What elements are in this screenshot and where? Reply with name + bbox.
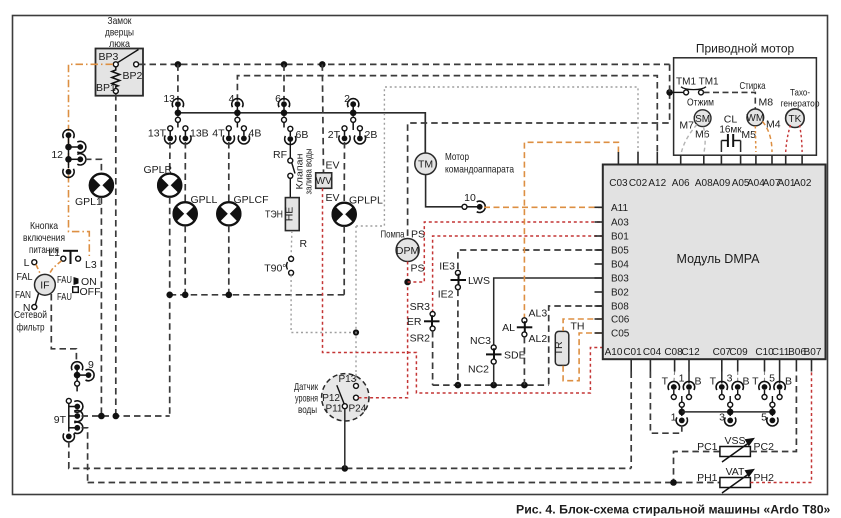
lamp GPLPL <box>332 203 357 226</box>
svg-text:PS: PS <box>411 229 425 241</box>
wire feed node 4 and A12 line <box>237 76 657 153</box>
svg-text:WV: WV <box>316 176 332 187</box>
svg-text:L3: L3 <box>85 259 97 271</box>
svg-text:AL2: AL2 <box>529 333 548 345</box>
wire R grey TEH to T90 <box>290 231 293 257</box>
node 2 <box>348 99 359 130</box>
module top pin stubs <box>618 152 802 165</box>
svg-text:Замок: Замок <box>108 15 132 27</box>
svg-text:фильтр: фильтр <box>17 322 45 334</box>
sensor pin P11 <box>342 404 347 409</box>
motor SM spin <box>694 110 711 127</box>
wire red WV to A10 <box>323 188 603 393</box>
svg-text:GPLCF: GPLCF <box>234 194 269 206</box>
wire 13B to GPLL <box>184 142 186 202</box>
svg-text:B: B <box>743 376 750 388</box>
svg-text:A08: A08 <box>695 178 713 189</box>
wire IF to N <box>35 294 38 306</box>
wire 9T bus to lamps <box>82 415 170 417</box>
svg-text:FAU: FAU <box>57 291 72 303</box>
switch blade BP3 <box>118 50 139 63</box>
svg-text:LWS: LWS <box>468 275 490 287</box>
svg-text:PC1: PC1 <box>697 441 718 453</box>
svg-text:2: 2 <box>344 93 350 105</box>
wire red pump to junction <box>407 262 409 283</box>
svg-text:3: 3 <box>727 373 733 385</box>
wire grey SM M6 to A08 <box>704 127 706 152</box>
wire C07 to T3 <box>721 372 723 384</box>
svg-text:Помпа: Помпа <box>381 229 405 241</box>
connector group3 center <box>725 396 736 426</box>
lamp GPL1 <box>89 174 114 197</box>
wire orange node10 to A11 <box>484 206 603 208</box>
svg-text:A06: A06 <box>672 178 690 189</box>
wire red pump to A03 <box>408 222 603 282</box>
wire GPLR down through bus to 9T bus <box>169 197 171 416</box>
junction on top bus node13 feed <box>175 61 182 68</box>
connector group5 B <box>774 381 785 399</box>
wire TM1 junction to top bus <box>669 64 671 92</box>
wire B05 to IE3 <box>458 250 603 270</box>
wire orange L to IF <box>36 265 42 277</box>
wire grey SM M7 to A06 <box>682 125 698 153</box>
wire C11 to B5 <box>779 372 781 384</box>
junction GPLR lamp bus <box>166 292 173 299</box>
svg-text:1: 1 <box>679 373 685 385</box>
motor TM timer <box>415 153 437 175</box>
power button label <box>23 220 65 256</box>
svg-text:P11: P11 <box>325 404 342 415</box>
svg-text:IE3: IE3 <box>439 261 455 273</box>
wire red B01 to SR3 <box>433 236 603 312</box>
svg-text:A09: A09 <box>713 178 731 189</box>
svg-text:C12: C12 <box>681 347 700 358</box>
svg-text:Модуль DMPA: Модуль DMPA <box>677 252 761 266</box>
wire feed node 6 <box>283 64 285 100</box>
wire orange C03 to AL3 <box>524 142 618 317</box>
wire orange WM M4 to A07 <box>763 122 773 153</box>
svg-text:C06: C06 <box>611 315 630 326</box>
wire P11 to bus1 <box>344 409 346 469</box>
svg-text:IE2: IE2 <box>438 289 454 301</box>
svg-text:9: 9 <box>88 359 94 371</box>
wire red TK to A02 <box>800 125 803 152</box>
svg-text:L1: L1 <box>48 247 60 259</box>
svg-text:командоаппарата: командоаппарата <box>445 164 514 176</box>
thermistor TR <box>553 331 569 365</box>
svg-text:1: 1 <box>671 412 677 424</box>
connector 4T <box>223 126 234 144</box>
node 10 connector <box>462 201 485 212</box>
node 13 <box>172 99 183 128</box>
svg-text:PS: PS <box>411 263 425 275</box>
motor WM wash <box>747 109 764 126</box>
junction BP1 on 9T bus <box>113 413 120 420</box>
svg-text:M5: M5 <box>741 129 756 141</box>
wire IE2 to bus385 <box>457 290 459 386</box>
svg-text:A02: A02 <box>794 178 812 189</box>
terminal L <box>32 260 37 265</box>
svg-text:13: 13 <box>163 93 175 105</box>
svg-text:P13: P13 <box>339 374 357 385</box>
svg-text:P12: P12 <box>322 393 340 404</box>
svg-text:TH: TH <box>571 321 585 333</box>
drive motor box <box>674 58 817 155</box>
junction AL2 bus385 <box>521 382 528 389</box>
junction GPLCF lamp bus <box>226 292 233 299</box>
svg-text:AL: AL <box>502 322 515 334</box>
svg-text:VSS: VSS <box>724 435 745 447</box>
svg-text:C02: C02 <box>629 178 648 189</box>
junction GPLL lamp bus <box>182 292 189 299</box>
svg-text:VAT: VAT <box>726 466 745 478</box>
svg-text:A10: A10 <box>605 347 623 358</box>
svg-text:уровня: уровня <box>295 393 318 405</box>
svg-text:включения: включения <box>23 232 65 244</box>
wire 9T tap3 to bottom bus2 <box>82 428 88 483</box>
svg-text:A03: A03 <box>611 218 629 229</box>
wire grey T90 down to sensor branch <box>291 275 356 332</box>
svg-text:C04: C04 <box>643 347 662 358</box>
wire B08 to bus385 <box>549 306 603 385</box>
svg-text:B03: B03 <box>611 274 629 285</box>
pin BP2 <box>134 62 139 67</box>
svg-text:FAN: FAN <box>15 289 31 301</box>
svg-text:B04: B04 <box>611 260 629 271</box>
switch T90 <box>287 256 294 275</box>
svg-text:PH1: PH1 <box>697 472 718 484</box>
wire 2T to GPLPL <box>343 142 345 203</box>
svg-text:5: 5 <box>769 373 775 385</box>
switch ER with SR3 SR2 <box>424 312 440 332</box>
svg-text:B02: B02 <box>611 288 629 299</box>
svg-text:M6: M6 <box>695 129 710 141</box>
wire IF FAU down to node 9 <box>51 294 76 364</box>
svg-text:Мотор: Мотор <box>445 151 469 163</box>
svg-text:2B: 2B <box>365 129 378 141</box>
svg-text:C05: C05 <box>611 329 630 340</box>
wire orange WM M5 to A04 <box>754 126 757 152</box>
wire AL2 to bus385 <box>523 337 525 385</box>
wire main solid bus <box>178 113 425 154</box>
svg-text:GPLR: GPLR <box>144 164 173 176</box>
svg-text:GPLL: GPLL <box>191 194 218 206</box>
lamp GPLL <box>173 202 198 225</box>
connector group3 B <box>732 381 743 399</box>
svg-text:дверцы: дверцы <box>105 27 134 39</box>
connector 13T <box>165 126 176 144</box>
svg-text:T: T <box>752 376 759 388</box>
svg-text:4T: 4T <box>212 128 225 140</box>
wire SR2 to bus385 <box>432 331 434 385</box>
svg-text:3: 3 <box>719 412 725 424</box>
node 6 <box>278 99 289 128</box>
module top pin labels <box>609 178 812 189</box>
wire feed node 13 <box>177 64 179 100</box>
connector 2T <box>339 126 350 144</box>
svg-text:B: B <box>785 376 792 388</box>
svg-text:WM: WM <box>746 113 764 124</box>
switch RF <box>288 142 295 179</box>
wire grey branch down to P13 <box>355 226 357 383</box>
switch L1 pushbutton <box>61 251 81 264</box>
node 4 <box>232 99 243 128</box>
svg-text:TR: TR <box>553 341 565 355</box>
wire bus2 bottom <box>88 482 720 484</box>
heater TEH HE <box>283 198 299 231</box>
svg-text:IF: IF <box>40 280 49 292</box>
wire C01 down to bus1 <box>630 372 632 469</box>
connector 2B <box>354 126 365 144</box>
wire pump feed from TM1 junction <box>408 92 670 238</box>
connector group1 center <box>676 396 687 426</box>
svg-text:P24: P24 <box>349 404 367 415</box>
junction on top bus WV feed <box>319 61 326 68</box>
svg-text:Стирка: Стирка <box>740 80 766 92</box>
junction GPL1 on 9T bus <box>98 413 105 420</box>
wire orange TR bottom to C05 <box>563 333 603 381</box>
switch AL with AL3 AL2 <box>517 318 533 337</box>
wire TM to node 10 <box>426 175 462 207</box>
wire red P24 to pump junction <box>359 284 408 398</box>
junction grey net <box>353 329 359 335</box>
junction TM1 feed <box>666 89 673 96</box>
door lock box BP <box>96 49 144 96</box>
sensor water level body <box>322 374 369 421</box>
wire lamp bus <box>170 294 345 296</box>
svg-text:16мк: 16мк <box>719 125 742 136</box>
svg-text:B07: B07 <box>804 347 822 358</box>
wire GPLCF down to lamp bus <box>228 226 230 295</box>
svg-text:DPM: DPM <box>396 245 419 257</box>
svg-text:C09: C09 <box>729 347 748 358</box>
junction sensor on bus1 <box>342 465 349 472</box>
svg-text:GPLPL: GPLPL <box>349 195 383 207</box>
svg-text:13B: 13B <box>190 128 209 140</box>
wire red VAT right to B07 <box>750 372 811 483</box>
wire orange C06 to TR top <box>563 319 603 331</box>
svg-text:BP3: BP3 <box>99 51 119 63</box>
label timer motor <box>445 151 514 176</box>
wire TM1 to WM (Stirka) <box>704 92 756 108</box>
wire WV feed from top bus <box>322 64 323 172</box>
wire 13T to GPLR <box>169 142 171 173</box>
svg-text:T90°: T90° <box>264 263 286 275</box>
sensor pin P13 <box>354 383 359 388</box>
svg-text:4B: 4B <box>249 128 262 140</box>
pump DPM <box>396 239 419 262</box>
wire capacitor left to A09 <box>720 141 722 153</box>
svg-text:M4: M4 <box>766 119 781 131</box>
sensor pin P24 <box>354 395 359 400</box>
wire B03 solid to NC3 <box>494 278 603 345</box>
wire center bus solid <box>682 411 773 413</box>
svg-text:AL3: AL3 <box>529 308 548 320</box>
pin BP3 <box>113 62 118 67</box>
wire orange L1 to IF <box>49 261 62 275</box>
valve WV <box>316 173 332 189</box>
label tacho <box>781 88 820 110</box>
svg-text:2T: 2T <box>328 129 341 141</box>
wire grey inside sensor to P13 <box>355 374 357 384</box>
connector group3 T <box>716 381 727 399</box>
resistor BP3-BP1 <box>112 67 120 88</box>
label Klapan zaliva vody rotated <box>295 149 314 195</box>
svg-text:FAL: FAL <box>17 271 33 283</box>
switch SDE with NC3 NC2 <box>486 345 502 364</box>
switch ON flag <box>74 276 97 288</box>
wire C04 to group1 bottom <box>650 372 681 434</box>
svg-text:BP2: BP2 <box>123 70 143 82</box>
svg-text:Датчик: Датчик <box>294 381 318 393</box>
lamp GPLCF <box>216 202 241 225</box>
module left pin stubs <box>595 207 603 333</box>
wire C09 to B3 <box>737 372 739 385</box>
capacitor CL 16mk <box>721 134 740 147</box>
svg-text:EV: EV <box>326 192 340 204</box>
door lock label <box>105 15 134 50</box>
switch OFF square <box>73 286 101 298</box>
svg-text:6: 6 <box>275 93 281 105</box>
sensor wiper <box>337 385 345 406</box>
wire capacitor right to A05 <box>740 141 742 153</box>
junction IE2 bus385 <box>455 382 462 389</box>
wire GPL1 down to 9T bus <box>100 197 102 416</box>
wire 9T bottom to bus1 <box>69 441 631 468</box>
svg-text:RF: RF <box>273 149 287 161</box>
connector group1 B <box>683 381 694 399</box>
connector group5 T <box>759 381 770 399</box>
wire GPLPL down to lamp bus <box>343 226 345 294</box>
wire RF to TEH <box>289 178 291 197</box>
mains filter IF <box>35 274 56 295</box>
svg-text:генератор: генератор <box>781 99 820 110</box>
wire 4T to GPLCF <box>228 142 230 202</box>
svg-text:10: 10 <box>464 192 476 204</box>
wire VSS right to B06 <box>750 372 796 452</box>
svg-text:SR3: SR3 <box>410 301 431 313</box>
svg-text:воды: воды <box>298 404 317 416</box>
connector group5 center <box>767 396 778 426</box>
svg-text:NC2: NC2 <box>468 364 489 376</box>
svg-text:T: T <box>710 376 717 388</box>
lamp GPLR <box>157 174 182 197</box>
node 9 connector <box>71 362 94 392</box>
svg-text:TM1 TM1: TM1 TM1 <box>676 77 719 88</box>
svg-text:SM: SM <box>695 114 710 125</box>
svg-text:12: 12 <box>51 149 63 161</box>
module bottom pin labels <box>605 347 822 358</box>
svg-text:C03: C03 <box>609 178 628 189</box>
svg-text:A11: A11 <box>611 203 628 214</box>
wire BP1 down to 9T bus <box>115 94 117 416</box>
connector group1 T <box>668 381 679 399</box>
svg-text:SR2: SR2 <box>410 333 431 345</box>
svg-text:Рис. 4. Блок-схема стиральной: Рис. 4. Блок-схема стиральной машины «Ar… <box>516 503 831 517</box>
svg-text:B08: B08 <box>611 302 629 313</box>
pin BP1 <box>113 89 118 94</box>
terminal N <box>32 305 37 310</box>
svg-text:TM: TM <box>418 159 433 171</box>
junction bus2 VSS <box>670 479 677 486</box>
svg-text:C08: C08 <box>664 347 683 358</box>
wire VSS left to bus2 junction <box>674 452 720 483</box>
svg-text:NC3: NC3 <box>470 335 491 347</box>
svg-text:9T: 9T <box>54 414 67 426</box>
tacho generator TK <box>786 109 805 128</box>
module DMPA body <box>603 165 826 360</box>
svg-text:13T: 13T <box>148 128 167 140</box>
svg-text:Сетевой: Сетевой <box>14 309 47 321</box>
switch LWS with IE3 IE2 <box>451 270 467 289</box>
svg-text:GPL1: GPL1 <box>75 196 102 208</box>
junction on top bus node6 feed <box>281 61 288 68</box>
wire GPLL down to lamp bus <box>184 226 186 295</box>
svg-text:C11: C11 <box>772 347 790 358</box>
junction NC2 bus385 <box>490 382 497 389</box>
connector 9T chain <box>63 398 83 442</box>
svg-text:Приводной мотор: Приводной мотор <box>696 42 795 56</box>
wire node12 branch to GPL1 <box>85 159 101 172</box>
module left pin labels <box>611 203 630 340</box>
rheostat VAT <box>720 469 755 493</box>
svg-text:ER: ER <box>407 316 422 328</box>
sensor label <box>294 381 318 416</box>
svg-text:SDE: SDE <box>504 350 526 362</box>
wire C08 to T1 <box>673 372 676 385</box>
wire red TK to A01 <box>786 125 791 152</box>
svg-text:OFF: OFF <box>80 286 101 298</box>
svg-text:BP1: BP1 <box>96 82 116 94</box>
module bottom pin stubs <box>631 359 811 371</box>
wire NC2 to bus385 <box>493 364 495 385</box>
svg-text:M8: M8 <box>759 97 774 109</box>
wire orange node12 to L3 <box>69 175 90 256</box>
svg-text:A12: A12 <box>648 178 666 189</box>
wire bus385 <box>433 384 549 386</box>
svg-text:6B: 6B <box>296 129 309 141</box>
wire grey C02 net <box>356 87 638 226</box>
svg-text:Отжим: Отжим <box>687 97 714 109</box>
switch TM1 TM1 <box>673 87 707 95</box>
svg-text:Кнопка: Кнопка <box>30 220 58 232</box>
connector 4B <box>238 126 249 144</box>
svg-text:C01: C01 <box>623 347 642 358</box>
svg-text:Тахо-: Тахо- <box>790 88 810 99</box>
wire C12 to B1 <box>688 372 690 384</box>
wire orange through node 12 <box>68 138 70 169</box>
connector 13B <box>180 126 191 144</box>
svg-text:B01: B01 <box>611 232 629 243</box>
connector 6B <box>285 126 296 144</box>
svg-text:залива воды: залива воды <box>304 149 314 195</box>
svg-text:ТЭН: ТЭН <box>265 209 283 221</box>
node 12 connector chain <box>63 130 86 178</box>
svg-text:TK: TK <box>789 114 802 125</box>
svg-text:T: T <box>662 376 669 388</box>
wire C10 to T5 <box>764 372 766 385</box>
filter label <box>14 309 47 334</box>
svg-text:B: B <box>695 376 702 388</box>
rheostat VSS <box>720 438 755 462</box>
svg-text:EV: EV <box>326 160 340 172</box>
svg-text:B05: B05 <box>611 246 629 257</box>
svg-text:FAU: FAU <box>57 274 72 286</box>
svg-text:5: 5 <box>761 412 767 424</box>
wire top dashed bus from BP2 to motor <box>139 63 670 65</box>
svg-text:R: R <box>300 238 308 250</box>
wire orange mains BP3 to node 12 <box>69 64 114 131</box>
